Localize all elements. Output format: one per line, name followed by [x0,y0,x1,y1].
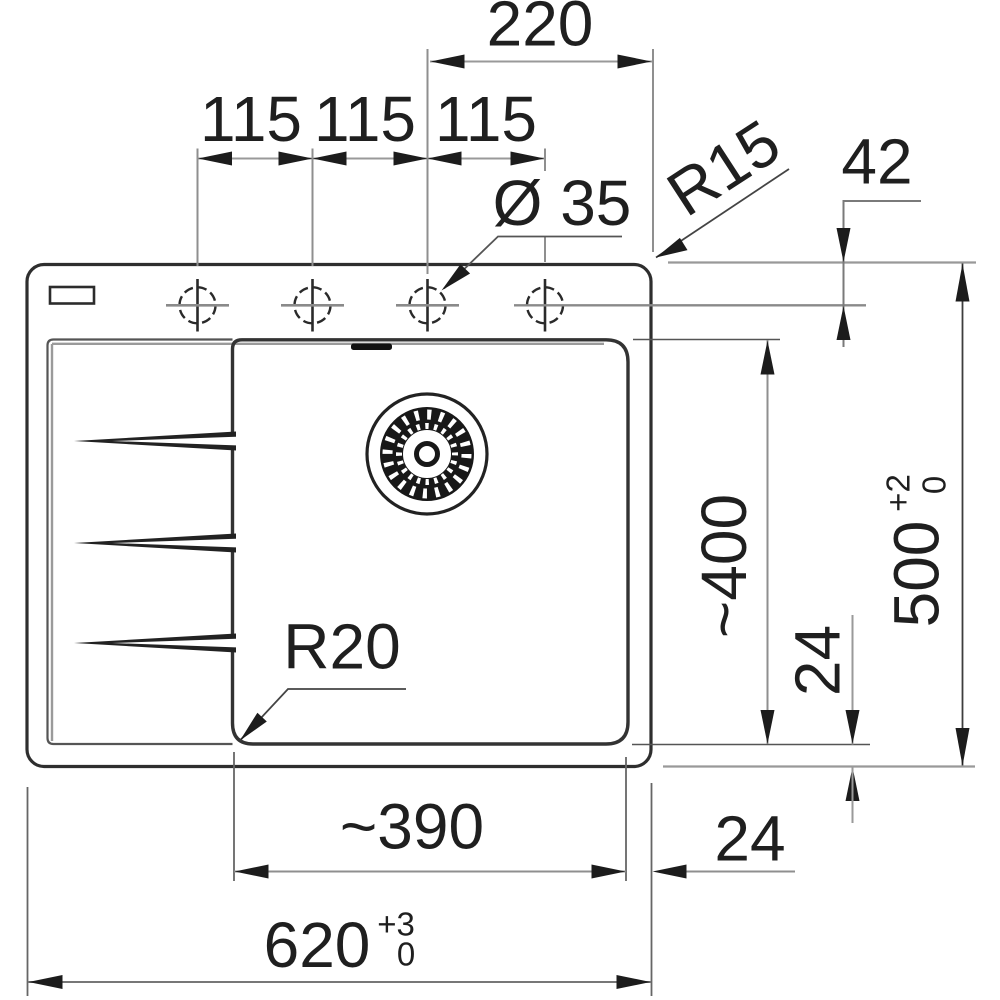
leader line for d35 [444,237,622,289]
overflow mark on basin top edge [351,344,392,351]
24r arrows [846,710,860,744]
dimension 115 line [198,158,546,160]
drain outer slot band [388,415,467,494]
label R15 (rotated) [655,106,793,230]
42 arrows [837,228,851,262]
dimension 220 line [430,61,652,63]
basin outline [233,340,629,744]
inner rim liner outline (left / drainboard part) [48,340,233,745]
liner inner offset left edge [51,344,53,741]
liner inner offset top edge [52,343,604,345]
svg-text:115: 115 [200,83,302,155]
drainboard groove 2 [74,534,236,553]
dimension 24 right: lower line [852,767,854,824]
svg-text:R20: R20 [283,611,400,683]
label 500 tolerance 0 [916,476,953,494]
svg-text:620: 620 [264,909,371,981]
drainboard groove 3 [74,634,236,653]
label 24 right (rotated) [782,625,854,696]
extension line hole2 [312,149,314,267]
dimension 390 line [234,871,626,873]
leader arrow R20 [240,713,267,741]
drain inner slot band [399,426,455,482]
label 500 tolerance +2 [880,474,917,512]
leader line R15 [656,169,789,258]
leader line R20 [240,689,406,741]
extension line sink left bottom [27,787,29,996]
dimension 24 right: upper line [852,615,854,745]
extension line hole4 upper [544,149,546,172]
faucet hole 3 [396,279,459,332]
svg-text:0: 0 [916,476,953,494]
dimension 220: extension line sink right edge [652,49,654,252]
390 arrows [235,865,269,879]
500 arrows [956,264,970,302]
faucet hole 4 [514,279,866,332]
svg-text:500: 500 [881,521,953,628]
extension line basin top right [633,339,780,341]
label 500 (rotated) [881,521,953,628]
dimension 42 line [844,201,922,347]
drain slotted ring [392,419,463,490]
leader arrow d35 [442,264,471,290]
svg-text:~400: ~400 [688,494,760,638]
faucet hole 2 [281,279,344,332]
svg-text:~390: ~390 [340,791,484,863]
svg-text:220: 220 [487,0,594,60]
220 arrows [431,55,465,69]
svg-text:115: 115 [435,83,537,155]
svg-text:Ø 35: Ø 35 [493,167,632,239]
dimension 24 bottom tail line [660,871,795,873]
extension line hole4 lower [544,236,546,262]
extension line sink right bottom [651,783,653,996]
svg-text:24: 24 [782,625,854,696]
dimension 620 line [28,981,651,983]
logo rectangle [50,287,94,304]
drain assembly [367,394,487,514]
svg-text:+2: +2 [880,474,917,512]
svg-text:42: 42 [841,126,912,198]
sink outer outline [27,265,651,767]
620 arrows [29,975,63,989]
faucet hole 1 [166,279,229,332]
label ~400 (rotated) [688,494,760,638]
svg-text:0: 0 [397,936,415,973]
extension line sink top right [668,261,976,263]
400 arrows [761,341,775,375]
extension line basin bottom right [632,744,870,746]
svg-text:115: 115 [314,83,416,155]
dimension 500: line [962,264,964,767]
extension line sink bottom right [663,765,975,767]
24 bottom arrow [653,865,687,879]
svg-text:24: 24 [714,803,785,875]
dimension 400 line [767,340,769,744]
drain outer circle [367,394,487,514]
extension line basin right bottom [625,757,627,881]
drainboard groove 1 [74,432,236,451]
115 arrows [198,152,232,166]
extension line basin left bottom [233,752,235,881]
drain center ring [417,444,438,465]
extension line hole3 (shared with 220) [427,49,429,274]
leader arrow R15 [656,238,688,258]
dimension 115 chain: extension line hole1 [197,149,199,267]
